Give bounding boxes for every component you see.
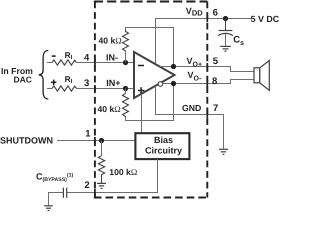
- wire: RI top to IN- pin into op-amp: [77, 62, 135, 64]
- svg-text:5 V DC: 5 V DC: [251, 14, 280, 24]
- svg-text:RI: RI: [65, 50, 73, 61]
- svg-text:Circuitry: Circuitry: [145, 145, 182, 155]
- node: supply node dot: [223, 16, 228, 21]
- svg-text:C(BYPASS)(1): C(BYPASS)(1): [36, 171, 74, 183]
- ground (CBYPASS): [44, 206, 53, 211]
- node: VO+ feedback tap: [171, 64, 176, 69]
- wire: SHUTDOWN line pin 1 to bias box: [57, 140, 135, 142]
- svg-text:4: 4: [84, 52, 90, 63]
- svg-text:100 kΩ: 100 kΩ: [109, 167, 137, 177]
- label: plus polarity: [51, 80, 56, 85]
- node: IN- junction dot: [123, 60, 128, 65]
- resistor 40k (upper feedback): [123, 30, 129, 51]
- Bias Circuitry box: [135, 133, 189, 159]
- svg-text:Bias: Bias: [154, 135, 173, 145]
- svg-text:VDD: VDD: [186, 6, 203, 17]
- op-amp plus input sign: [138, 87, 145, 94]
- wire: RI bottom to IN+ pin into op-amp: [77, 88, 135, 90]
- wire: IN- input line from brace to resistor: [47, 62, 52, 64]
- op-amp minus input sign: [138, 65, 144, 67]
- ground (Cs): [220, 46, 231, 51]
- ground (pin 7 external): [219, 149, 228, 154]
- wire: IN+ input line from brace to resistor: [47, 88, 52, 90]
- svg-text:VO-: VO-: [188, 70, 202, 82]
- svg-text:RI: RI: [65, 74, 73, 85]
- wire: bypass from bias box bottom to pin 2 and CBYPASS: [67, 159, 158, 193]
- op-amp U1 triangle: [134, 52, 175, 98]
- resistor 100k (pulldown): [98, 156, 104, 183]
- resistor RI (top, series input): [52, 60, 77, 65]
- svg-text:3: 3: [84, 78, 89, 89]
- svg-text:6: 6: [213, 8, 218, 19]
- capacitor CBYPASS: [63, 188, 66, 198]
- svg-text:40 kΩ: 40 kΩ: [99, 36, 122, 46]
- svg-text:8: 8: [212, 76, 217, 87]
- node: shutdown junction: [99, 138, 104, 143]
- node: VO- feedback tap: [171, 81, 176, 86]
- resistor RI (bottom, series input): [52, 86, 77, 91]
- input brace: [39, 51, 49, 100]
- wire: GND from op-amp to pin 7 and external ground: [156, 86, 224, 149]
- svg-text:1: 1: [85, 129, 91, 140]
- wire: bias circuitry to op-amp: [141, 94, 143, 133]
- inverting output bubble: [158, 82, 163, 87]
- svg-text:40 kΩ: 40 kΩ: [98, 104, 121, 114]
- svg-text:5: 5: [213, 56, 219, 67]
- svg-text:SHUTDOWN: SHUTDOWN: [0, 135, 53, 145]
- wire: node down to 100k: [101, 141, 103, 156]
- svg-text:2: 2: [84, 180, 89, 191]
- label: minus polarity: [52, 55, 56, 57]
- svg-text:IN+: IN+: [106, 78, 120, 88]
- node: IN+ junction dot: [123, 86, 128, 91]
- wire: VDD rail from op-amp top to pin 6 and 5V supply: [156, 19, 252, 65]
- wire: feedback top loop to VO+ node: [126, 28, 174, 67]
- wire: VO+ output to pin 5 and speaker: [160, 67, 255, 72]
- svg-text:7: 7: [213, 103, 218, 114]
- resistor 40k (lower feedback): [123, 94, 129, 118]
- svg-text:IN-: IN-: [106, 53, 118, 63]
- svg-text:GND: GND: [182, 103, 201, 113]
- wire: VO- output to pin 8 and speaker: [163, 80, 254, 84]
- ground (100k internal): [97, 183, 106, 188]
- wire: IN+ node down to 40k feedback resistor 2: [125, 89, 127, 94]
- capacitor Cs (supply bypass): [218, 19, 233, 46]
- svg-text:Cs: Cs: [233, 35, 244, 47]
- pin ticks where wires cross the dashed border: [95, 15, 207, 196]
- wire: feedback bottom loop to VO- node: [126, 84, 174, 121]
- speaker: [254, 61, 269, 91]
- wire: IN- node up to 40k feedback resistor: [125, 51, 127, 63]
- wire: CBYPASS to ground: [49, 193, 64, 206]
- IC dashed boundary box: [94, 2, 207, 198]
- svg-text:DAC: DAC: [14, 75, 32, 85]
